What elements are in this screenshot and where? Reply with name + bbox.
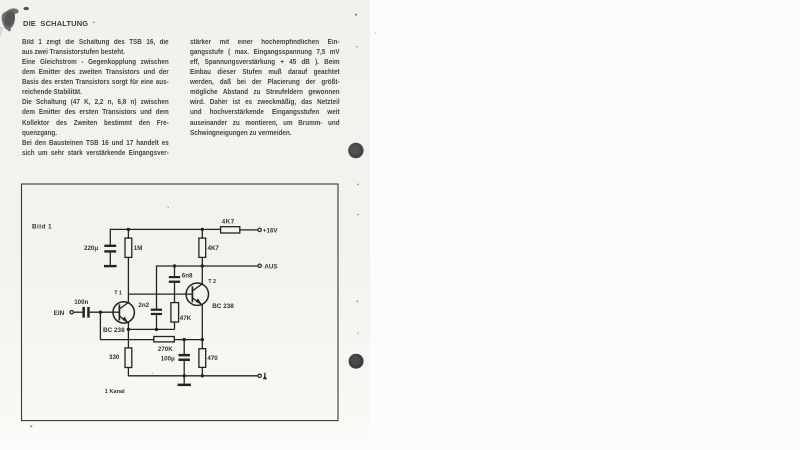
- wire 470 to bottom rail: [201, 367, 203, 375]
- wire T1 emitter line: [128, 328, 174, 330]
- svg-text:470: 470: [207, 355, 218, 362]
- resistor R 4K7 (supply feed): [221, 227, 240, 233]
- resistor R 470: [199, 349, 206, 368]
- terminal EIN: [70, 311, 73, 314]
- junction T2 emitter / 470: [201, 338, 204, 341]
- svg-text:1 Kanal: 1 Kanal: [105, 389, 125, 395]
- svg-text:BC 238: BC 238: [103, 327, 125, 334]
- wire feedback down: [99, 312, 101, 339]
- svg-text:T 2: T 2: [208, 279, 216, 285]
- junction T1 emitter: [127, 328, 130, 331]
- terminal AUS: [258, 264, 261, 267]
- wire 1M to T1 collector node: [127, 257, 129, 294]
- resistor R 1M: [125, 238, 132, 257]
- resistor R 270K: [154, 337, 175, 342]
- transistor T2 BC238: [186, 266, 208, 340]
- wire 330 to bottom rail: [127, 368, 129, 377]
- wire 100n to T1 base: [90, 311, 120, 313]
- wire rail to 1M: [127, 229, 129, 238]
- wire 6n8 to 47K: [174, 283, 176, 303]
- dust specks: [357, 184, 359, 186]
- junction T1 base node: [99, 311, 102, 314]
- capacitor C 2n2: [151, 309, 162, 316]
- capacitor C 100n: [82, 307, 89, 318]
- hole punch bottom: [349, 354, 364, 369]
- terminal +16V: [258, 228, 261, 231]
- wire emitter node to 330: [127, 329, 129, 348]
- wire 220μ to ground: [109, 253, 111, 265]
- svg-text:EIN: EIN: [54, 310, 65, 317]
- svg-text:4K7: 4K7: [208, 245, 220, 252]
- ground (below 220μ): [104, 265, 117, 267]
- ground (below bottom rail): [178, 384, 191, 387]
- svg-text:T 1: T 1: [114, 290, 122, 296]
- wire AUS corner down to 2n2: [156, 265, 158, 308]
- wire EIN to 100n: [73, 311, 82, 313]
- wire feedback to 270K: [100, 339, 153, 341]
- wire 470 branch: [201, 340, 203, 349]
- resistor R 47K: [171, 303, 179, 322]
- svg-text:47K: 47K: [180, 315, 192, 322]
- wire 100μ branch: [183, 340, 185, 354]
- junction 100μ bottom: [183, 374, 186, 377]
- junction T2 collector: [201, 264, 204, 267]
- capacitor C 6n8: [169, 276, 180, 283]
- svg-text:BC 238: BC 238: [212, 303, 234, 310]
- wire 100μ to rail and ground: [183, 361, 185, 384]
- wire 270K to T2 emitter: [174, 339, 202, 341]
- junction 4K7 top: [201, 228, 204, 231]
- capacitor C 220μ: [104, 245, 116, 253]
- wire rail to 4K7: [201, 229, 203, 238]
- svg-text:270K: 270K: [158, 346, 173, 353]
- resistor R 4K7 (T2 collector load): [199, 238, 206, 257]
- svg-text:AUS: AUS: [264, 263, 277, 270]
- svg-text:4K7: 4K7: [222, 219, 235, 226]
- junction 1M top: [127, 228, 130, 231]
- wire 2n2 to emitter line: [156, 315, 158, 329]
- wire supply rail left: [110, 228, 220, 230]
- svg-text:220μ: 220μ: [84, 245, 98, 252]
- corner smudge artifact: [2, 8, 19, 31]
- wire AUS line: [157, 265, 259, 267]
- svg-text:100n: 100n: [74, 299, 88, 306]
- wire T1 collector to T2 base: [128, 293, 191, 295]
- wire bottom rail: [128, 375, 258, 377]
- wire rail to 220μ: [109, 229, 111, 245]
- svg-text:Bild 1: Bild 1: [32, 223, 52, 230]
- schematic frame: [22, 184, 339, 421]
- svg-text:2n2: 2n2: [138, 302, 149, 309]
- junction 100μ top: [183, 338, 186, 341]
- wire supply rail right to +16V: [240, 229, 258, 231]
- capacitor C 100μ: [179, 354, 190, 361]
- wire 4K7 to AUS node: [201, 257, 203, 266]
- svg-text:+16V: +16V: [263, 227, 278, 234]
- hole punch top: [348, 143, 363, 158]
- svg-text:330: 330: [109, 354, 120, 361]
- transistor T1 BC238: [113, 294, 134, 329]
- svg-text:100μ: 100μ: [161, 356, 175, 363]
- terminal ground: [258, 373, 267, 380]
- junction 2n2 bottom: [155, 328, 158, 331]
- junction 6n8 top: [173, 264, 176, 267]
- wire AUS node to 6n8: [174, 266, 176, 276]
- wire 47K to emitter line: [174, 322, 176, 329]
- svg-text:1M: 1M: [134, 245, 143, 252]
- junction 470 bottom: [201, 374, 204, 377]
- svg-text:6n8: 6n8: [182, 272, 193, 279]
- resistor R 330: [125, 348, 132, 368]
